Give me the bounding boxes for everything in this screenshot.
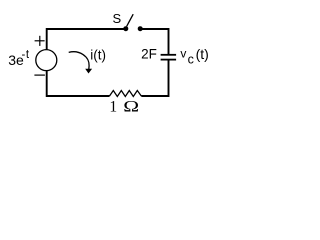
svg-text:S: S: [112, 11, 121, 26]
svg-text:t: t: [26, 49, 30, 61]
svg-text:2F: 2F: [141, 46, 157, 61]
svg-text:i(t): i(t): [90, 47, 106, 62]
wire: bottom-left segment: [47, 71, 110, 96]
svg-text:(t): (t): [196, 46, 209, 62]
current arrow arc i(t): [69, 52, 89, 69]
source V1 circle: [36, 50, 57, 71]
wire: below capacitor down to bottom-right corner: [141, 60, 168, 96]
current arrowhead: [85, 69, 92, 74]
svg-text:Ω: Ω: [123, 98, 139, 115]
source plus sign: [35, 36, 45, 46]
wire: top-left L segment: [47, 29, 126, 50]
svg-text:c: c: [188, 53, 194, 67]
source minus sign: [34, 74, 45, 76]
wire: top-right segment + right drop to capacitor: [140, 29, 168, 54]
capacitor C bottom plate: [161, 59, 177, 61]
switch S node dot left: [123, 26, 128, 31]
svg-text:-: -: [22, 49, 26, 61]
resistor R zigzag: [110, 91, 142, 97]
svg-text:v: v: [180, 46, 186, 60]
svg-text:1: 1: [109, 98, 117, 115]
capacitor C top plate: [161, 54, 177, 56]
switch S node dot right: [138, 26, 143, 31]
switch S blade: [127, 14, 134, 26]
